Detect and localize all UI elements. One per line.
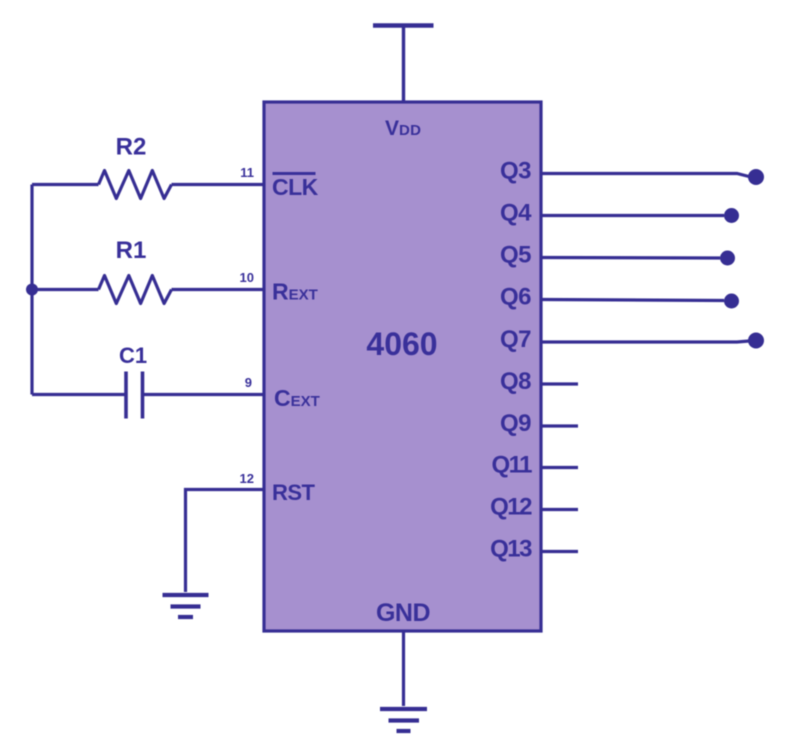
node dot Q3 <box>748 169 764 185</box>
svg-text:Q7: Q7 <box>500 326 531 353</box>
junction node dot <box>26 284 38 296</box>
svg-text:Q5: Q5 <box>500 242 531 269</box>
pin label CLK with overline <box>272 174 319 201</box>
wire stub Q9 <box>541 424 578 427</box>
resistor R1 <box>99 276 172 304</box>
node dot Q4 <box>724 208 739 223</box>
wire Q3 <box>541 174 749 177</box>
wire stub Q11 <box>541 466 578 469</box>
wire pin 11 (CLK) <box>32 183 264 186</box>
ground symbol (RST) <box>163 595 209 617</box>
VDD power symbol <box>373 26 434 103</box>
svg-text:12: 12 <box>240 471 254 486</box>
svg-text:C1: C1 <box>119 343 147 368</box>
svg-text:Q9: Q9 <box>500 410 531 437</box>
svg-text:Q11: Q11 <box>491 452 532 479</box>
wire Q5 <box>541 256 720 260</box>
wire Q4 <box>541 214 724 217</box>
svg-text:Q12: Q12 <box>490 494 532 521</box>
svg-text:10: 10 <box>240 270 254 285</box>
svg-text:R1: R1 <box>116 237 147 264</box>
svg-text:Q6: Q6 <box>500 284 531 311</box>
svg-text:Q8: Q8 <box>500 368 531 395</box>
svg-text:11: 11 <box>240 165 254 180</box>
IC U1 4060 body <box>264 102 541 631</box>
svg-text:Q3: Q3 <box>500 158 531 185</box>
wire pin 9 (Cext) <box>32 393 264 396</box>
wire stub Q8 <box>541 382 578 385</box>
GND wire <box>402 631 405 706</box>
wire stub Q13 <box>541 550 578 553</box>
wire Q6 <box>541 300 724 301</box>
wire stub Q12 <box>541 508 578 511</box>
resistor R2 <box>99 171 172 199</box>
svg-text:R2: R2 <box>116 134 147 161</box>
wire pin 10 (Rext) <box>32 288 264 291</box>
wire pin 12 (RST) <box>186 490 265 593</box>
ground symbol (GND) <box>380 709 427 731</box>
left vertical bus wire <box>30 185 33 395</box>
svg-text:RST: RST <box>272 480 316 505</box>
wire Q7 <box>541 341 749 342</box>
svg-text:4060: 4060 <box>366 326 437 362</box>
svg-text:Q4: Q4 <box>500 200 532 227</box>
svg-text:GND: GND <box>376 599 430 627</box>
capacitor C1 <box>126 372 143 419</box>
svg-text:9: 9 <box>245 375 252 390</box>
svg-text:Q13: Q13 <box>490 536 532 563</box>
svg-text:CLK: CLK <box>272 174 319 200</box>
node dot Q6 <box>724 294 739 309</box>
node dot Q7 <box>748 333 764 349</box>
node dot Q5 <box>720 251 735 266</box>
